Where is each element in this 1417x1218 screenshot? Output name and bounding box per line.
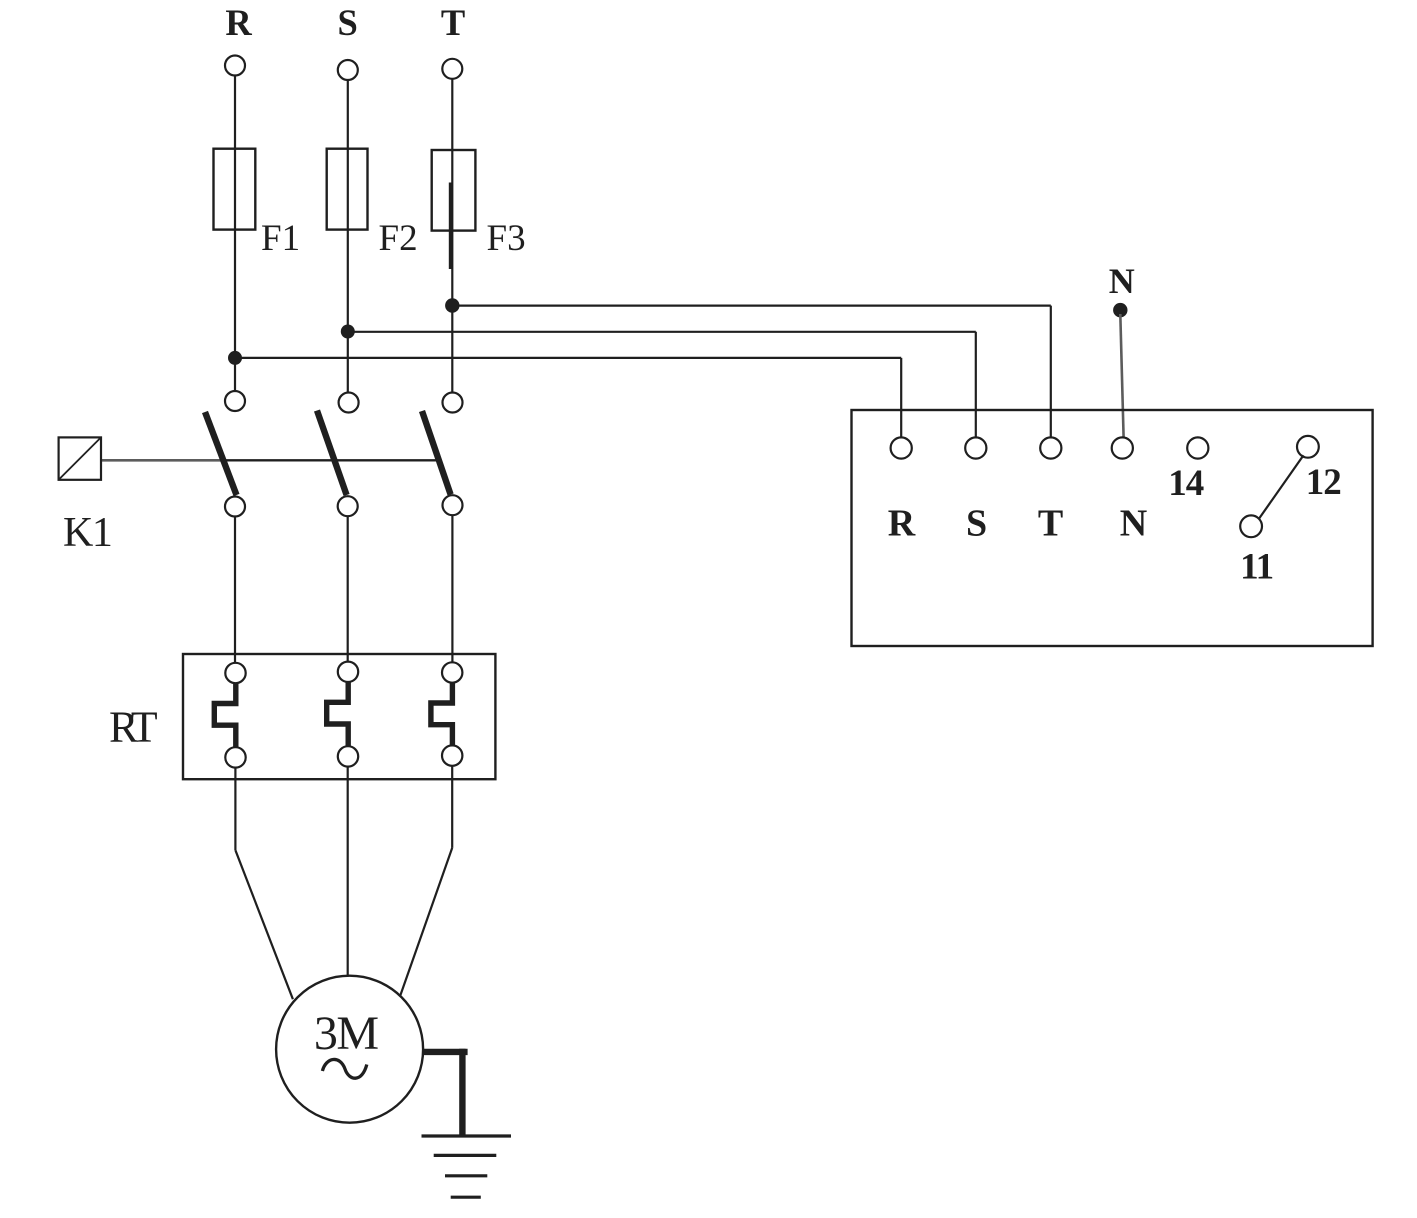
svg-text:F3: F3 [487,218,526,259]
svg-text:14: 14 [1168,463,1204,504]
svg-text:R: R [225,2,252,43]
svg-text:T: T [1038,503,1063,545]
svg-text:12: 12 [1306,462,1341,503]
svg-text:11: 11 [1240,546,1273,587]
svg-text:R: R [888,503,916,545]
svg-text:N: N [1120,503,1147,545]
svg-text:S: S [966,503,987,545]
svg-text:T: T [441,2,465,43]
svg-text:F2: F2 [379,218,418,259]
svg-text:K1: K1 [63,510,111,556]
svg-text:N: N [1109,261,1135,301]
svg-text:S: S [338,2,358,43]
svg-text:RT: RT [109,702,158,751]
svg-text:3M: 3M [314,1007,379,1060]
svg-text:F1: F1 [261,218,300,259]
